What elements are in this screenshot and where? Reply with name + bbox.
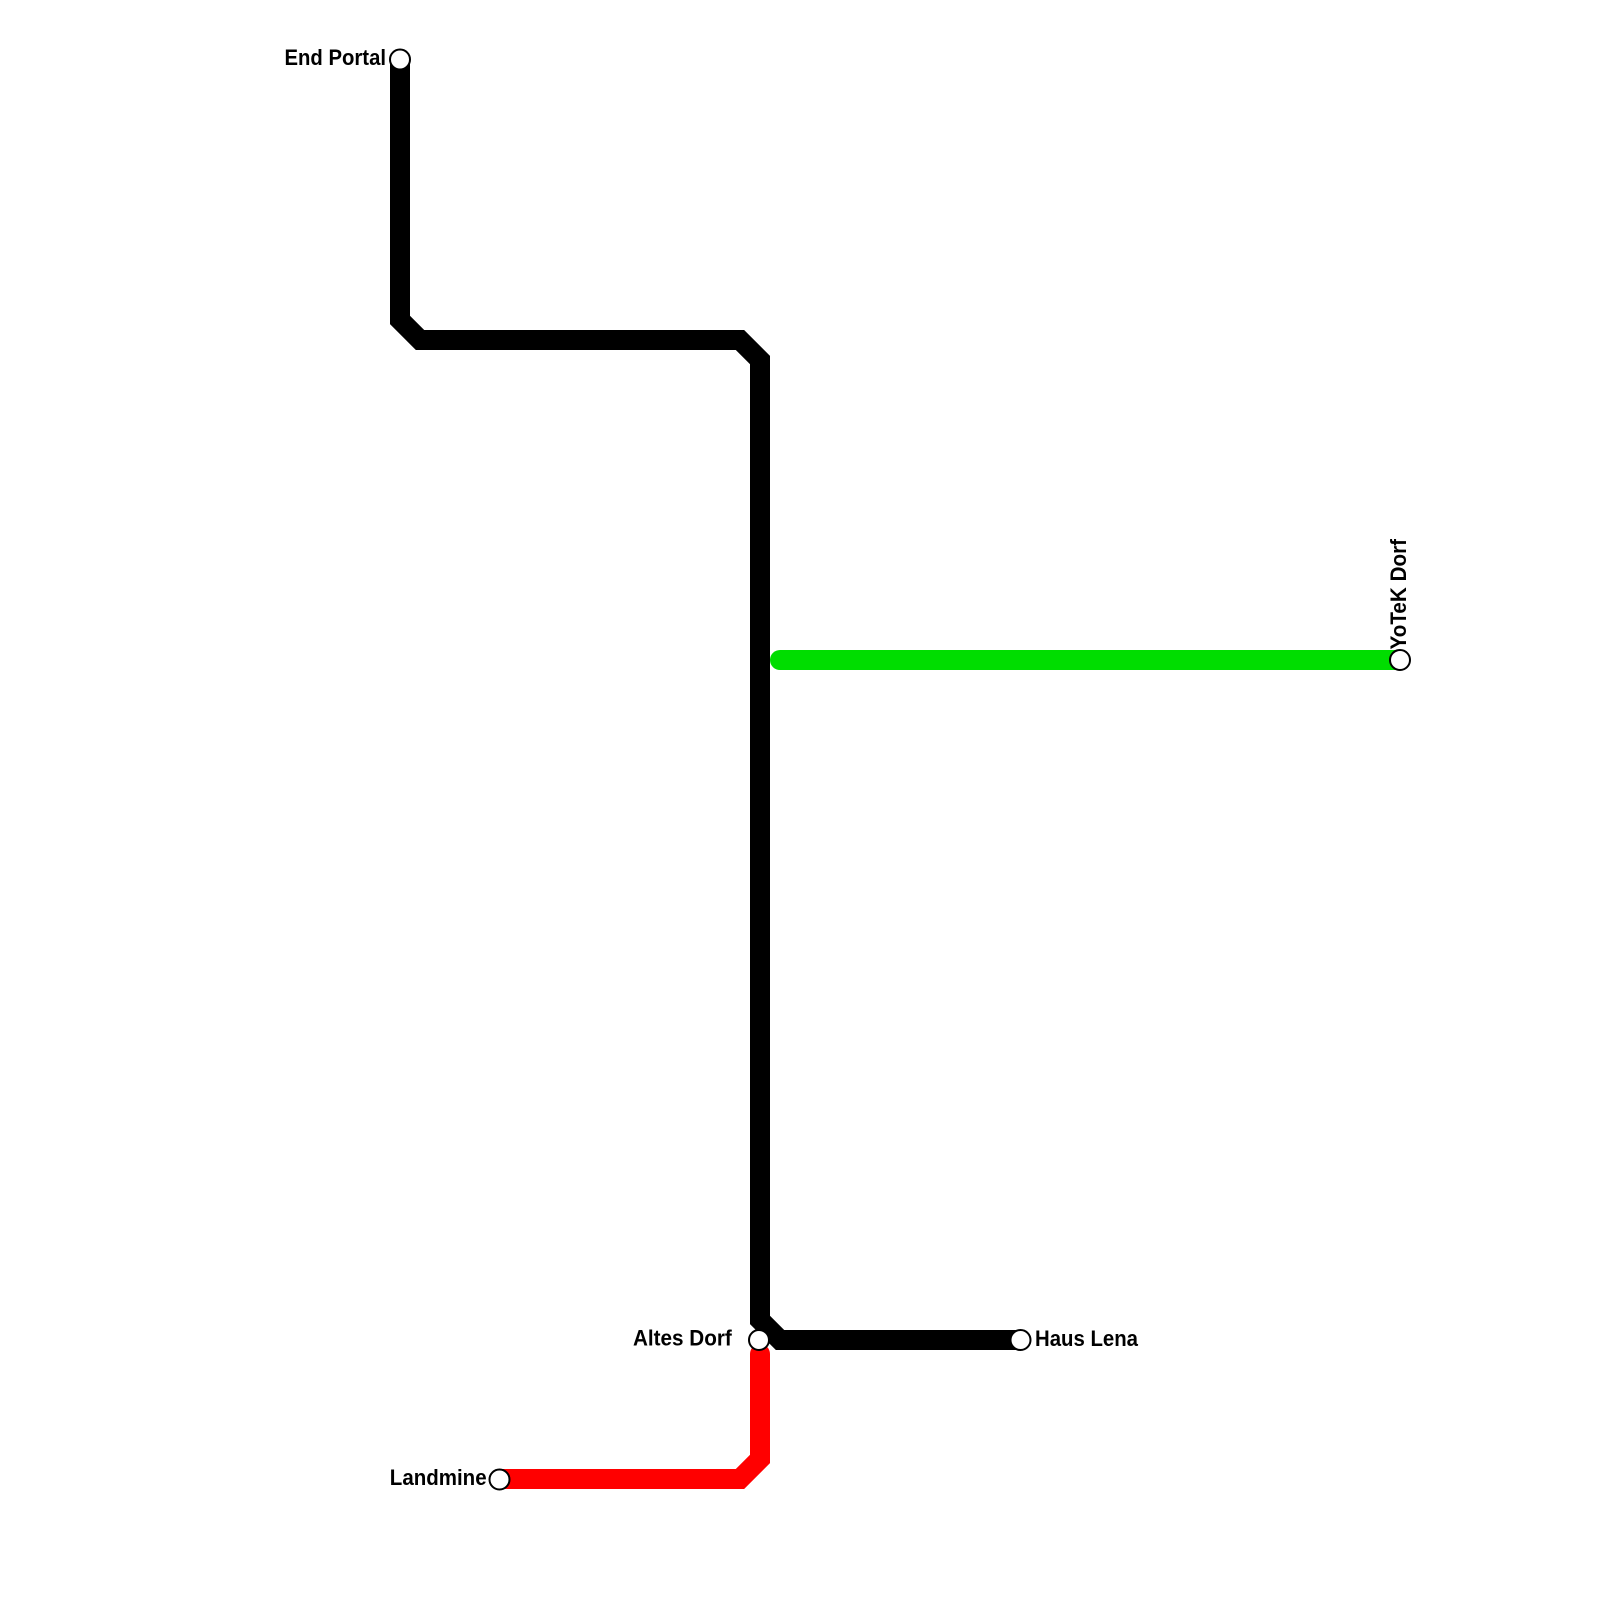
station End Portal [390,50,410,70]
station Altes Dorf [749,1330,769,1350]
svg-text:Landmine: Landmine [390,1465,487,1490]
svg-text:End Portal: End Portal [285,45,387,70]
green branch line to YoTeK Dorf [780,650,1400,670]
red branch line Altes Dorf to Landmine [500,1354,760,1479]
svg-text:Haus Lena: Haus Lena [1035,1326,1139,1351]
station YoTeK Dorf [1390,650,1410,670]
station Landmine [490,1470,510,1490]
station Haus Lena [1011,1330,1031,1350]
svg-text:Altes Dorf: Altes Dorf [633,1325,732,1350]
svg-text:YoTeK Dorf: YoTeK Dorf [1386,538,1411,649]
black main line End Portal to Haus Lena [400,60,1021,1341]
